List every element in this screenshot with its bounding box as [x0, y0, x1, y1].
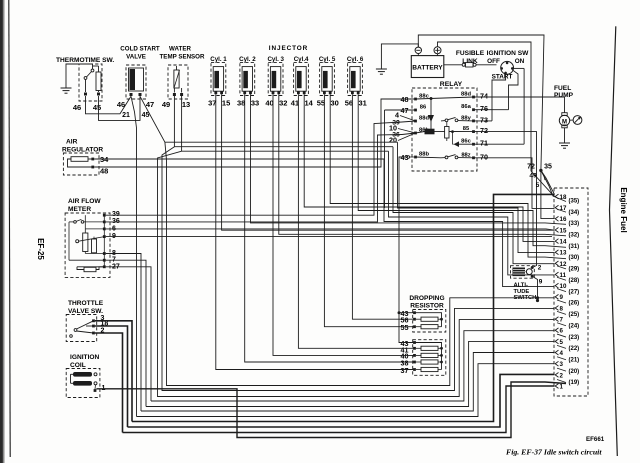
ECU pin 3 — [555, 361, 558, 366]
wire junction diagonal to pin 18 area — [541, 170, 555, 194]
wire relay 73 to ignition — [474, 120, 493, 122]
svg-text:88b: 88b — [419, 152, 429, 158]
wire relay 72 to altitude switch — [474, 132, 537, 263]
stub wire pin (25) — [557, 311, 566, 314]
air flow meter terminal 39 — [103, 214, 106, 217]
svg-text:14: 14 — [305, 99, 314, 108]
wire 49 horizontal run — [174, 146, 393, 148]
svg-text:(28): (28) — [569, 278, 580, 284]
svg-text:31: 31 — [359, 99, 367, 108]
wire injector 37 to dropping resistor — [216, 94, 415, 369]
stub wire pin (22) — [557, 345, 566, 348]
relay internal top row — [416, 97, 474, 99]
relay pin 88y 73 — [472, 120, 475, 123]
cold start valve body — [129, 68, 144, 91]
svg-text:21: 21 — [122, 112, 130, 119]
wire bottom bundle 7afm to pin 5 — [146, 341, 555, 406]
svg-text:(32): (32) — [569, 233, 580, 239]
relay pin 88d 74 — [472, 96, 475, 99]
dr2 resistor — [421, 346, 438, 350]
thermotime switch box — [79, 64, 102, 101]
svg-text:70: 70 — [480, 152, 488, 161]
dr2 pin 40 — [413, 354, 416, 357]
relay entry diagonal 39 — [402, 121, 416, 122]
throttle terminal 3 — [92, 319, 95, 322]
svg-text:10: 10 — [560, 283, 567, 290]
air flow meter terminal 27 — [103, 265, 106, 268]
svg-text:(25): (25) — [569, 312, 580, 318]
wire injector 32 to ECU pin 32 — [279, 94, 566, 236]
injector Cyl. 6 terminal 56 — [351, 91, 354, 94]
wire 3 throttle down — [95, 321, 132, 422]
stub wire pin (26) — [557, 300, 566, 303]
svg-text:36: 36 — [112, 218, 120, 225]
svg-text:TUDE: TUDE — [514, 289, 530, 295]
svg-text:88d: 88d — [419, 116, 429, 122]
thermotime terminal 45 — [97, 93, 100, 96]
battery minus wire to ground — [381, 44, 418, 69]
svg-text:72: 72 — [527, 164, 535, 171]
svg-text:49: 49 — [529, 173, 537, 180]
injector Cyl. 1 body — [213, 67, 223, 92]
svg-text:11: 11 — [560, 272, 567, 279]
wire 45 step down to pin 13 — [398, 142, 555, 252]
wire injector 41 to dropping resistor — [298, 94, 414, 348]
svg-text:15: 15 — [222, 99, 230, 108]
stub wire pin (28) — [557, 277, 566, 280]
svg-text:(30): (30) — [569, 255, 580, 261]
svg-text:(33): (33) — [569, 221, 580, 227]
svg-text:45: 45 — [93, 103, 101, 112]
stub wire pin (24) — [557, 323, 566, 326]
wire 49 from water temp sensor — [173, 96, 175, 147]
dr2 bus — [415, 343, 442, 370]
wire 18 throttle down — [95, 326, 128, 427]
page left rule — [9, 0, 10, 457]
relay pin 88z 70 — [472, 156, 475, 159]
svg-text:BATTERY: BATTERY — [412, 65, 443, 72]
relay resistor internal — [445, 127, 449, 139]
thermotime resistor — [96, 72, 101, 91]
wire relay 70 to pin 17 — [474, 158, 555, 209]
ignition coil secondary bar — [73, 381, 92, 386]
stub wire pin (20) — [557, 368, 566, 371]
air flow meter resistor 1 — [83, 233, 88, 252]
ignition switch wire down 2 — [509, 70, 519, 110]
ignition coil terminal 1 — [94, 389, 97, 392]
svg-text:THROTTLE: THROTTLE — [68, 300, 104, 307]
svg-text:METER: METER — [68, 206, 91, 213]
injector Cyl. 3 body — [270, 67, 280, 92]
wire junction diagonal short — [541, 170, 545, 180]
injector Cyl. 6 body — [350, 67, 360, 92]
svg-text:(26): (26) — [569, 301, 580, 307]
battery plus loop wire — [438, 42, 555, 197]
injector Cyl.4 terminal 14 — [303, 91, 306, 94]
svg-text:COIL: COIL — [70, 362, 86, 369]
svg-text:71: 71 — [480, 139, 488, 148]
wire 13 horizontal run — [182, 150, 389, 152]
ECU pin 16 — [555, 216, 558, 221]
svg-text:(23): (23) — [569, 335, 580, 341]
air flow meter wiper — [76, 240, 79, 243]
battery plus terminal — [434, 47, 441, 54]
altitude switch terminal 9 — [531, 275, 534, 278]
altitude switch wire 2 — [532, 263, 536, 268]
relay contact 1 — [445, 119, 448, 122]
wire 39 air flow meter to relay — [106, 122, 402, 215]
air flow meter terminal 9 — [103, 235, 106, 238]
air flow meter terminal 6 — [103, 228, 106, 231]
injector Cyl. 2 box — [240, 62, 255, 95]
relay pin 88b left — [414, 156, 417, 159]
svg-text:ON: ON — [515, 58, 525, 65]
wire bottom bundle 27afm to pin 6 — [151, 331, 555, 401]
svg-text:(19): (19) — [569, 380, 580, 386]
wire 43 branch dr1 — [399, 312, 415, 314]
svg-text:2: 2 — [560, 372, 564, 379]
svg-text:9: 9 — [560, 294, 564, 301]
svg-text:THERMOTIME SW.: THERMOTIME SW. — [56, 57, 114, 64]
dr2 resistor — [421, 367, 438, 371]
relay entry diagonal 20 — [398, 133, 416, 141]
svg-text:TEMP SENSOR: TEMP SENSOR — [160, 54, 205, 61]
svg-text:33: 33 — [251, 99, 259, 108]
relay pin 86c 71 — [472, 143, 475, 146]
svg-text:VALVE: VALVE — [126, 54, 146, 61]
svg-text:5: 5 — [560, 339, 564, 346]
ground symbol battery — [376, 68, 387, 70]
svg-text:16: 16 — [560, 216, 567, 223]
water temp sensor box — [168, 65, 188, 99]
relay coil — [425, 129, 435, 135]
ECU pin 8 — [555, 306, 558, 311]
relay pin 86b left — [414, 132, 417, 135]
stub wire pin (19) — [557, 380, 566, 383]
svg-text:4: 4 — [560, 350, 564, 357]
svg-text:8: 8 — [560, 305, 564, 312]
wire relay 76 to ignition — [474, 109, 509, 111]
altitude switch contact — [526, 269, 532, 275]
ECU pin 12 — [555, 261, 558, 266]
battery minus loop wire to junction — [418, 35, 544, 170]
injector Cyl. 1 terminal 37 — [214, 91, 217, 94]
wire 34 air regulator to pin 10 — [94, 159, 554, 287]
svg-text:9: 9 — [539, 279, 543, 286]
svg-text:15: 15 — [560, 227, 567, 234]
svg-text:EF-25: EF-25 — [36, 238, 45, 260]
ECU pin 9 — [555, 294, 558, 299]
dropping resistor box 1 — [413, 310, 446, 333]
relay contact 2 — [445, 156, 448, 159]
wire 47 riser — [384, 110, 386, 208]
injector Cyl. 1 box — [211, 62, 226, 95]
air flow meter bottom resistor — [84, 267, 96, 271]
svg-text:START: START — [492, 74, 513, 81]
injector Cyl. 6 box — [348, 62, 363, 95]
cold start valve terminal 47 — [139, 93, 142, 96]
relay entry diagonal 10 — [398, 129, 416, 134]
stub wire pin (27) — [557, 289, 566, 292]
fuel pump check valve — [573, 116, 582, 125]
svg-text:ALTI-: ALTI- — [514, 283, 528, 289]
air flow meter terminal 7 — [103, 259, 106, 262]
wire bottom bundle 18 to pin 2 — [128, 374, 555, 427]
svg-text:M: M — [562, 119, 567, 125]
dr2 pin 38 — [413, 361, 416, 364]
wire bottom bundle 8afm to pin 4 — [141, 353, 555, 412]
dr2 pin 37 — [413, 368, 416, 371]
ECU pin 13 — [555, 250, 558, 255]
wire injector 31 to ECU pin 31 — [358, 94, 566, 247]
svg-text:INJECTOR: INJECTOR — [269, 45, 308, 52]
fusible link wire — [444, 64, 463, 66]
svg-text:OFF: OFF — [487, 58, 500, 65]
relay pin 88d left — [414, 120, 417, 123]
svg-text:(24): (24) — [569, 323, 580, 329]
thermotime ground wire — [66, 64, 93, 88]
svg-text:REGULATOR: REGULATOR — [62, 146, 103, 153]
ECU pin 10 — [555, 283, 558, 288]
wire injector 55 to dropping resistor — [324, 94, 414, 327]
svg-text:34: 34 — [100, 155, 109, 164]
svg-text:2: 2 — [538, 265, 542, 272]
svg-text:WATER: WATER — [169, 46, 191, 53]
ECU pin 17 — [555, 205, 558, 210]
dr1 resistor 56 — [421, 317, 438, 321]
svg-text:38: 38 — [237, 99, 245, 108]
wire 7 air flow meter down — [106, 260, 146, 406]
svg-text:32: 32 — [279, 99, 287, 108]
svg-text:(35): (35) — [569, 198, 580, 204]
svg-text:40: 40 — [265, 99, 273, 108]
svg-text:IGNITION SW: IGNITION SW — [487, 50, 530, 57]
page left dark strip — [0, 0, 5, 463]
svg-text:14: 14 — [560, 238, 567, 245]
wire 49 step down to pin 12 — [393, 147, 555, 264]
svg-text:86a: 86a — [461, 104, 471, 110]
throttle terminal 2 — [92, 332, 95, 335]
throttle terminal 18 — [92, 325, 95, 328]
thermotime switch contact — [91, 69, 94, 72]
svg-text:FUSIBLE: FUSIBLE — [456, 50, 485, 57]
wire 27 air flow meter down — [106, 267, 151, 401]
svg-text:48: 48 — [401, 95, 409, 104]
wire injector 56 to dropping resistor — [352, 94, 414, 319]
wire battery junction to pin 16 — [541, 170, 555, 218]
ECU pin 4 — [555, 350, 558, 355]
altitude switch element — [513, 268, 526, 277]
cold start valve terminal 46 — [130, 93, 133, 96]
wire 9 air flow meter run — [106, 236, 552, 238]
water temp thermistor — [174, 70, 179, 88]
ignition switch wire down 1 — [492, 74, 506, 121]
wire junction diagonal to pin 35 — [541, 170, 566, 201]
stub wire pin (23) — [557, 334, 566, 337]
injector Cyl.4 body — [296, 67, 306, 92]
wire 1 ignition coil to pin 19 — [96, 382, 566, 438]
svg-text:47: 47 — [146, 100, 154, 109]
water temp terminal 13 — [180, 93, 183, 96]
relay pin 48 88c — [414, 98, 417, 101]
wire injector 30 to ECU pin 30 — [330, 94, 566, 259]
dr1 pin 55 — [413, 325, 416, 328]
air flow meter terminal 36 — [103, 221, 106, 224]
wire bottom bundle 2 to pin 1 — [123, 386, 555, 433]
wire 8 air flow meter down — [106, 254, 141, 412]
relay pin 47 86 — [414, 109, 417, 112]
svg-text:88d: 88d — [461, 92, 471, 98]
wire injector 40 to dropping resistor — [273, 94, 415, 355]
wire 48 air regulator to relay — [94, 99, 414, 167]
svg-text:(31): (31) — [569, 244, 580, 250]
svg-text:1: 1 — [560, 383, 564, 390]
injector Cyl.4 terminal 41 — [297, 91, 300, 94]
svg-text:45: 45 — [142, 112, 150, 119]
thermotime terminal 46 — [84, 93, 87, 96]
svg-text:(21): (21) — [569, 357, 580, 363]
ignition coil box — [66, 369, 100, 398]
wire 45 branch down to bundle — [165, 142, 555, 385]
relay box — [412, 88, 477, 171]
throttle switch arm — [74, 329, 77, 332]
injector Cyl. 2 terminal 38 — [243, 91, 246, 94]
ground symbol thermotime — [61, 87, 72, 89]
svg-text:VALVE SW.: VALVE SW. — [68, 308, 103, 315]
svg-text:6: 6 — [560, 328, 564, 335]
Engine Fuel tab line — [610, 26, 618, 456]
ECU connector box — [554, 188, 588, 396]
svg-text:(20): (20) — [569, 369, 580, 375]
dr1 resistor 55 — [421, 325, 438, 329]
cold start valve box — [126, 65, 146, 99]
wire injector 14 to ECU pin 14 — [304, 94, 554, 241]
injector Cyl. 5 terminal 30 — [329, 91, 332, 94]
wire relay 71 to ignition — [474, 143, 525, 145]
dr2 resistor — [421, 353, 438, 357]
ECU pin 15 — [555, 228, 558, 233]
air regulator box — [63, 153, 99, 175]
throttle valve switch box — [66, 315, 97, 342]
svg-text:3: 3 — [560, 361, 564, 368]
svg-text:37: 37 — [401, 366, 409, 375]
svg-text:(34): (34) — [569, 210, 580, 216]
svg-text:13: 13 — [560, 250, 567, 257]
injector Cyl. 2 body — [242, 67, 252, 92]
air regulator terminal 34 — [91, 158, 94, 161]
wire bottom bundle 21 to pin 3 — [137, 364, 555, 417]
svg-text:AIR: AIR — [66, 139, 78, 146]
relay bottom contact lead — [416, 156, 446, 159]
svg-text:PUMP: PUMP — [554, 92, 574, 99]
junction altitude on pin 9 wire — [536, 296, 539, 299]
dr1 pin 56 — [413, 318, 416, 321]
dr2 pin 41 — [413, 347, 416, 350]
svg-text:48: 48 — [100, 167, 108, 176]
fusible link element — [462, 63, 465, 66]
injector Cyl. 1 terminal 15 — [220, 91, 223, 94]
relay diode 2 — [454, 141, 460, 147]
ECU pin 5 — [555, 339, 558, 344]
svg-text:4: 4 — [395, 111, 399, 120]
ECU pin 11 — [555, 272, 558, 277]
wire injector 38 to dropping resistor — [245, 94, 415, 362]
wire 6 air flow meter run — [106, 229, 555, 230]
svg-text:49: 49 — [162, 100, 170, 109]
svg-text:7: 7 — [560, 317, 564, 324]
wire 13 branch down to bundle — [158, 151, 555, 396]
wire 2 throttle down — [95, 333, 123, 433]
fuel pump motor — [559, 115, 569, 125]
svg-text:AIR FLOW: AIR FLOW — [68, 198, 101, 205]
junction battery feed — [539, 169, 542, 172]
ECU pin 1 — [555, 384, 558, 389]
wire 36 air flow meter to relay — [106, 135, 402, 222]
ground symbol fuel pump — [559, 142, 570, 144]
svg-text:13: 13 — [182, 100, 190, 109]
junction 43 — [398, 311, 401, 314]
svg-text:(29): (29) — [569, 267, 580, 273]
air flow meter resistor 2 — [92, 239, 97, 253]
injector Cyl. 3 terminal 32 — [277, 91, 280, 94]
svg-text:(22): (22) — [569, 346, 580, 352]
svg-text:COLD START: COLD START — [120, 46, 160, 53]
injector Cyl. 2 terminal 33 — [249, 91, 252, 94]
svg-text:56: 56 — [345, 99, 353, 108]
svg-text:RELAY: RELAY — [440, 81, 463, 88]
svg-text:47: 47 — [401, 106, 409, 115]
svg-text:DROPPING: DROPPING — [409, 295, 444, 302]
dr2 pin 43 — [413, 341, 416, 344]
ignition switch wire down 3 — [523, 68, 525, 144]
injector Cyl. 3 terminal 40 — [272, 91, 275, 94]
svg-text:(27): (27) — [569, 289, 580, 295]
wire 49 branch down to bundle — [162, 147, 555, 391]
svg-text:35: 35 — [544, 164, 552, 171]
svg-text:74: 74 — [480, 92, 488, 101]
svg-text:72: 72 — [480, 126, 488, 135]
fuel pump wire top — [474, 97, 565, 113]
stub wire pin (34) — [557, 209, 566, 212]
ECU pin 18 — [555, 194, 558, 199]
svg-text:46: 46 — [73, 103, 81, 112]
water temp terminal 49 — [173, 93, 176, 96]
wire injector 33 to ECU pin 33 — [251, 94, 567, 224]
altitude switch terminal 2 — [531, 266, 534, 269]
relay entry diagonal 4 — [400, 116, 416, 122]
ECU pin 2 — [555, 372, 558, 377]
svg-text:Fig. EF-37 Idle switch circui: Fig. EF-37 Idle switch circuit — [506, 448, 602, 457]
dr2 resistor — [421, 360, 438, 364]
fuel pump ground wire — [564, 128, 566, 143]
relay entry diagonal 36 — [402, 133, 416, 135]
altitude switch wire 9 — [532, 276, 537, 300]
svg-text:76: 76 — [480, 104, 488, 113]
altitude switch box — [511, 266, 535, 279]
svg-text:5: 5 — [536, 182, 540, 189]
svg-text:Engine Fuel: Engine Fuel — [619, 187, 628, 232]
injector Cyl. 5 box — [320, 62, 335, 95]
dropping resistor box 2 — [413, 340, 446, 376]
dr1 pin 43 — [413, 311, 416, 314]
ignition switch rotor — [501, 61, 514, 74]
wire 47 stub to relay — [385, 109, 415, 111]
wire 13 from water temp sensor — [181, 96, 183, 151]
wire injector 15 to ECU pin 15 — [222, 94, 555, 230]
svg-text:55: 55 — [317, 99, 325, 108]
battery minus terminal — [415, 47, 421, 53]
wire thermotime 46 to cold start 46 — [86, 96, 132, 114]
